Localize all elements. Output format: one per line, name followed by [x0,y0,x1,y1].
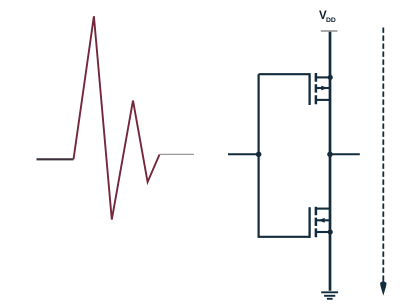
transistor M1 source stub [316,76,330,78]
wire baseline right (waveform tail) [160,153,195,155]
transistor M1 bulk stub [316,87,330,89]
node VDD terminal bar [321,30,338,32]
ground [321,292,338,299]
wire gate bottom horizontal [258,236,310,238]
transistor M1 bulk arrow (points right) [321,86,328,91]
wire dashed timeline [382,28,384,282]
wire gate top horizontal [259,73,310,75]
transistor M1 (PMOS) gate bar [308,73,310,105]
wire baseline left (waveform zero line) [37,158,74,160]
junction dot input node [256,152,262,158]
transistor M1 channel segments [315,73,318,104]
svg-text:DD: DD [326,17,336,24]
junction dot NMOS source [328,229,333,234]
transistor M2 (NMOS) gate bar [308,207,310,238]
node timeline arrowhead [380,281,387,296]
transistor M2 bulk stub [316,219,330,221]
wire input lead [228,153,259,155]
transistor M2 bulk arrow (points left) [318,218,325,223]
wire VDD rail to ground rail (main vertical) [329,32,332,291]
junction dot PMOS source [328,75,333,80]
node ESD pulse waveform [74,16,160,219]
transistor M1 drain stub [316,99,330,101]
wire output lead [330,153,360,155]
transistor M2 channel segments [315,207,318,237]
wire gate bus vertical [258,74,260,237]
junction dot output node [327,152,333,158]
node VDD label [319,10,336,24]
transistor M2 source stub [316,231,330,233]
transistor M2 drain stub [316,208,330,210]
